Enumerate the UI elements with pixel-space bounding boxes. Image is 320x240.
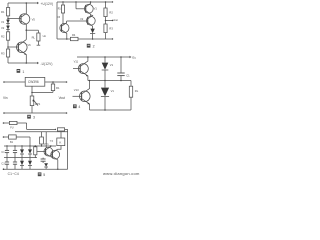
svg-text:C1~C4: C1~C4 [8, 172, 19, 176]
node R1 top [62, 1, 63, 2]
terminal bottom left [3, 168, 5, 170]
svg-text:V6: V6 [27, 43, 31, 47]
terminal input B [3, 136, 5, 138]
svg-text:Uo: Uo [43, 34, 47, 38]
transistor V2 [86, 15, 95, 29]
svg-text:C3: C3 [1, 163, 5, 166]
svg-text:R4: R4 [72, 33, 76, 37]
node collector V1 [90, 1, 91, 2]
node ladder c1 [6, 145, 7, 146]
svg-text:C1: C1 [1, 151, 5, 154]
svg-text:V2: V2 [1, 26, 5, 30]
svg-text:V1: V1 [111, 89, 115, 93]
svg-text:1: 1 [22, 70, 24, 74]
node VT2 emitter [57, 169, 58, 170]
svg-text:V13: V13 [74, 88, 79, 92]
node ladder c2 [14, 145, 15, 146]
wire base T2 [8, 46, 18, 48]
resistor RL right branch [129, 81, 138, 111]
capacitor C4 [13, 158, 17, 170]
wire input B [4, 136, 9, 138]
svg-text:-U(12V): -U(12V) [41, 62, 53, 66]
resistor R3 [104, 24, 113, 33]
wire base VT1 [37, 151, 46, 153]
terminal bottom right [112, 38, 113, 39]
transistor V3 [60, 21, 69, 39]
transistor VT1 [44, 143, 53, 157]
node emitter T2 on rail [26, 62, 28, 64]
wire row B to VT1 base [45, 132, 47, 148]
svg-text:R1: R1 [58, 8, 62, 11]
node emitter V3 [66, 38, 68, 40]
svg-text:5: 5 [43, 173, 45, 177]
node base T2 [7, 46, 9, 48]
wire right rail [105, 2, 107, 39]
node mid cap [120, 80, 122, 82]
wire row B [15, 131, 68, 133]
diode V1 [1, 20, 10, 25]
wire to RL branch [26, 29, 38, 31]
node ladder d1 [21, 145, 22, 146]
svg-text:+U(12V): +U(12V) [41, 2, 54, 6]
wire R1 to V3 [62, 13, 64, 25]
regulator U1 CW396 [25, 77, 45, 86]
svg-text:RL: RL [32, 36, 36, 40]
svg-text:V1: V1 [94, 7, 98, 11]
resistor R3 [1, 49, 10, 57]
svg-text:VT1: VT1 [44, 143, 49, 146]
svg-text:B1: B1 [10, 141, 14, 144]
wire base V1 [76, 2, 86, 9]
svg-text:CW396: CW396 [28, 80, 39, 84]
svg-text:R2: R2 [109, 11, 113, 15]
transistor T1 [19, 3, 35, 30]
wire ladder mid rail [4, 157, 37, 159]
diode V2 [1, 26, 10, 31]
transistor VT2 [51, 149, 60, 169]
node R1 top [52, 81, 54, 83]
terminal output [66, 81, 68, 83]
capacitor C1 [117, 57, 130, 81]
potentiometer RP1 [30, 96, 41, 106]
svg-text:www.diangon.com: www.diangon.com [103, 171, 140, 176]
svg-text:R1: R1 [56, 86, 60, 90]
resistor R5 [34, 146, 37, 158]
node cap top [120, 56, 122, 58]
node VT1 collector [50, 145, 51, 146]
terminal top right [112, 1, 113, 2]
wire top rail [57, 1, 113, 3]
capacitor C5 [41, 158, 46, 163]
node diode bottom [104, 109, 106, 111]
node R5 top [35, 145, 36, 146]
wire input [4, 81, 25, 83]
diode V2 lower [101, 81, 114, 111]
node right rail top [105, 1, 106, 2]
svg-text:FU: FU [10, 126, 14, 129]
wire input A [4, 122, 10, 124]
node emitter T1 [26, 29, 28, 31]
wire left rail [7, 3, 9, 63]
svg-text:Vin: Vin [3, 96, 8, 100]
capacitor C2 [13, 146, 17, 158]
transistor T2 [17, 30, 32, 63]
svg-text:R2: R2 [1, 34, 5, 38]
diode VD5 [44, 163, 48, 169]
capacitor C1 [1, 146, 9, 158]
terminal input A [3, 122, 5, 124]
label figure 3 [27, 115, 35, 120]
node collector V11 on rail [87, 56, 89, 58]
node row A component [55, 129, 56, 130]
svg-text:Vout: Vout [59, 96, 65, 100]
transistor V11 [74, 57, 89, 81]
diode VD4 [28, 158, 32, 170]
svg-text:RP1: RP1 [35, 102, 41, 106]
svg-text:4: 4 [78, 105, 80, 109]
svg-text:3: 3 [33, 116, 35, 120]
wire R1 bottom to adj [32, 91, 53, 93]
node R6 bottom [41, 145, 42, 146]
resistor R1 [51, 82, 60, 91]
svg-text:V5: V5 [32, 17, 36, 21]
svg-text:2: 2 [93, 45, 95, 49]
node diode top [104, 56, 106, 58]
wire row C [16, 137, 30, 146]
resistor R6 [40, 132, 54, 146]
node junction on top rail [26, 2, 28, 4]
label figure 1 [17, 69, 25, 74]
transistor V1 [84, 2, 97, 17]
node adj [31, 92, 33, 94]
svg-text:V1: V1 [110, 63, 114, 67]
wire bottom rail [90, 109, 132, 111]
resistor R2 [104, 8, 113, 17]
fuse FU [9, 121, 17, 129]
resistor R1 [57, 2, 64, 19]
capacitor C3 [1, 158, 9, 170]
wire mid rail [88, 80, 131, 82]
node ladder d2 [29, 145, 30, 146]
node zener bottom [92, 38, 94, 40]
svg-text:Ec: Ec [132, 55, 136, 59]
wire pot to ground rail [31, 106, 33, 113]
wire adj pin [31, 86, 33, 96]
svg-text:R3: R3 [1, 52, 5, 56]
node collector V13 on mid rail [89, 80, 91, 82]
inductor L1 [57, 128, 67, 131]
resistor RL [32, 30, 47, 41]
svg-text:V3: V3 [57, 16, 61, 19]
wire left rail [56, 2, 58, 39]
wire output [45, 81, 67, 83]
zener diode V4 [90, 29, 95, 39]
svg-text:K: K [59, 141, 61, 145]
wire base V2 [67, 20, 88, 22]
wire bottom rail -U [8, 62, 39, 64]
label figure 2 [87, 44, 95, 49]
svg-text:R1: R1 [1, 10, 5, 14]
node mid diode [104, 80, 106, 82]
terminal bottom left [3, 112, 5, 114]
resistor R4 in bottom rail [70, 33, 78, 41]
transformer B1 [9, 135, 17, 144]
svg-text:V1: V1 [1, 20, 5, 24]
svg-text:V11: V11 [74, 60, 79, 64]
terminal bottom right [66, 112, 68, 114]
resistor R2 [1, 32, 10, 40]
wire bottom rail [4, 112, 67, 114]
diode VD3 [20, 158, 24, 170]
wire row A [17, 123, 55, 129]
terminal of RL branch [37, 41, 41, 45]
label figure 5 [38, 172, 45, 177]
wire top rail +U [8, 2, 39, 4]
terminal input [3, 81, 5, 83]
node base T1 [7, 18, 9, 20]
node output [105, 20, 107, 22]
wire bottom rail [4, 168, 68, 170]
wire ladder top rail [4, 145, 56, 147]
wire base T1 [8, 18, 21, 20]
resistor R1 [1, 8, 10, 16]
node top of base branch [75, 1, 76, 2]
svg-text:7.5: 7.5 [50, 140, 54, 143]
label figure 4 [73, 104, 80, 109]
wire base V13 [73, 95, 82, 97]
wire output [106, 20, 113, 22]
svg-text:V2: V2 [80, 17, 84, 21]
wire top rail Ecc [77, 56, 132, 58]
wire bottom rail [57, 38, 113, 40]
svg-text:Uout: Uout [113, 19, 118, 22]
svg-text:R3: R3 [109, 27, 113, 31]
wire base V11 [73, 68, 80, 70]
svg-text:RL: RL [135, 89, 139, 93]
diode VD1 [20, 146, 24, 158]
relay K [57, 132, 65, 150]
terminal output [112, 20, 113, 21]
diode V1 [102, 57, 114, 81]
transistor V13 [74, 81, 90, 111]
wire right rail down [67, 129, 69, 169]
svg-text:C1: C1 [126, 74, 130, 78]
diode VD2 [28, 146, 32, 158]
